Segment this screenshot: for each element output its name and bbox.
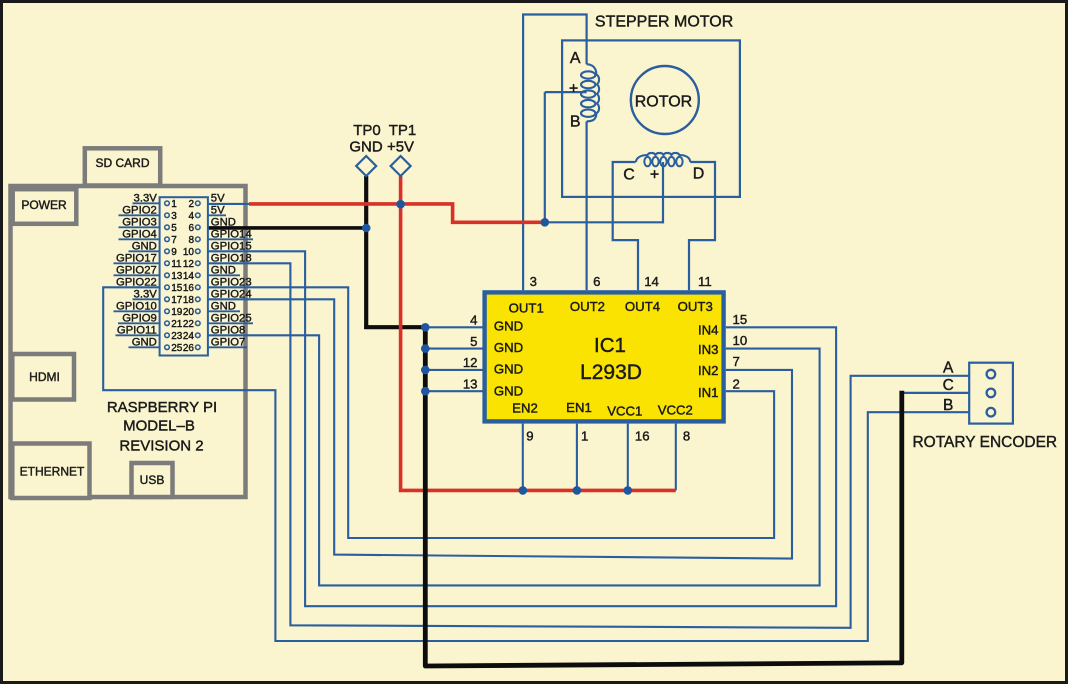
svg-text:MODEL–B: MODEL–B	[123, 417, 195, 434]
svg-text:OUT2: OUT2	[570, 299, 605, 314]
svg-text:B: B	[943, 397, 953, 414]
svg-text:17: 17	[171, 295, 183, 306]
svg-text:12: 12	[463, 355, 478, 370]
svg-text:11: 11	[698, 274, 712, 289]
svg-text:24: 24	[183, 331, 195, 342]
svg-text:GPIO10: GPIO10	[116, 300, 157, 312]
svg-text:USB: USB	[140, 473, 165, 487]
svg-text:7: 7	[171, 235, 177, 246]
svg-text:GPIO24: GPIO24	[211, 288, 252, 300]
svg-text:TP0: TP0	[353, 122, 381, 139]
svg-text:GPIO8: GPIO8	[211, 324, 246, 336]
svg-text:GPIO2: GPIO2	[122, 204, 157, 216]
svg-text:16: 16	[183, 283, 195, 294]
svg-text:GND: GND	[211, 264, 236, 276]
svg-text:POWER: POWER	[21, 198, 67, 212]
svg-text:L293D: L293D	[580, 361, 642, 384]
svg-text:GPIO18: GPIO18	[211, 252, 252, 264]
svg-text:GPIO25: GPIO25	[211, 312, 252, 324]
svg-text:10: 10	[183, 247, 195, 258]
svg-text:STEPPER MOTOR: STEPPER MOTOR	[595, 13, 733, 30]
svg-text:15: 15	[733, 312, 748, 327]
svg-text:21: 21	[171, 319, 183, 330]
svg-text:OUT3: OUT3	[678, 299, 713, 314]
svg-text:D: D	[693, 166, 705, 183]
svg-text:A: A	[943, 360, 954, 377]
svg-text:9: 9	[526, 429, 533, 444]
svg-text:14: 14	[183, 271, 195, 282]
svg-text:+5V: +5V	[387, 139, 414, 156]
svg-text:13: 13	[463, 377, 478, 392]
svg-text:VCC2: VCC2	[658, 403, 693, 418]
svg-text:GPIO7: GPIO7	[211, 336, 246, 348]
svg-text:GPIO3: GPIO3	[122, 216, 157, 228]
svg-text:A: A	[570, 50, 581, 67]
svg-text:8: 8	[188, 235, 194, 246]
svg-text:12: 12	[183, 259, 195, 270]
svg-text:+: +	[650, 167, 659, 184]
svg-text:4: 4	[188, 211, 194, 222]
svg-text:IC1: IC1	[594, 334, 626, 357]
svg-text:ETHERNET: ETHERNET	[20, 465, 85, 479]
svg-text:C: C	[623, 167, 635, 184]
svg-text:23: 23	[171, 331, 183, 342]
svg-text:SD CARD: SD CARD	[95, 156, 149, 170]
svg-text:22: 22	[183, 319, 195, 330]
svg-text:7: 7	[733, 354, 740, 369]
svg-text:GND: GND	[211, 300, 236, 312]
svg-text:C: C	[943, 377, 954, 394]
svg-text:RASPBERRY PI: RASPBERRY PI	[107, 399, 217, 416]
svg-text:TP1: TP1	[389, 122, 417, 139]
svg-text:26: 26	[183, 343, 195, 354]
svg-text:EN1: EN1	[566, 400, 592, 415]
svg-text:OUT1: OUT1	[509, 301, 544, 316]
svg-text:25: 25	[171, 343, 183, 354]
svg-text:GPIO14: GPIO14	[211, 228, 252, 240]
svg-text:11: 11	[171, 259, 182, 270]
svg-text:HDMI: HDMI	[29, 370, 60, 384]
svg-text:GPIO4: GPIO4	[122, 228, 157, 240]
svg-text:GPIO17: GPIO17	[116, 252, 157, 264]
svg-text:GPIO15: GPIO15	[211, 240, 252, 252]
svg-text:5: 5	[171, 223, 177, 234]
svg-text:10: 10	[733, 333, 748, 348]
svg-text:19: 19	[171, 307, 183, 318]
svg-text:13: 13	[171, 271, 183, 282]
svg-text:18: 18	[183, 295, 195, 306]
svg-text:GPIO27: GPIO27	[116, 264, 157, 276]
svg-text:4: 4	[470, 313, 477, 328]
svg-text:GPIO23: GPIO23	[211, 276, 252, 288]
svg-text:EN2: EN2	[512, 401, 538, 416]
svg-text:1: 1	[581, 429, 588, 444]
svg-text:GND: GND	[211, 216, 236, 228]
svg-text:5V: 5V	[211, 204, 225, 216]
svg-text:IN4: IN4	[698, 323, 719, 338]
svg-text:IN3: IN3	[698, 342, 719, 357]
svg-text:GND: GND	[494, 384, 523, 399]
svg-text:GPIO22: GPIO22	[116, 276, 157, 288]
svg-text:B: B	[570, 114, 581, 131]
svg-text:+: +	[569, 81, 578, 98]
svg-text:9: 9	[171, 247, 177, 258]
svg-text:5: 5	[470, 334, 477, 349]
svg-text:8: 8	[683, 429, 690, 444]
svg-text:OUT4: OUT4	[625, 299, 660, 314]
svg-text:GND: GND	[132, 240, 157, 252]
svg-text:5V: 5V	[211, 192, 225, 204]
svg-text:6: 6	[188, 223, 194, 234]
svg-text:GND: GND	[132, 336, 157, 348]
svg-text:2: 2	[733, 377, 740, 392]
svg-text:16: 16	[635, 429, 650, 444]
svg-text:1: 1	[171, 199, 177, 210]
svg-text:3.3V: 3.3V	[134, 192, 158, 204]
svg-text:3: 3	[530, 274, 537, 289]
svg-text:GND: GND	[494, 362, 523, 377]
svg-text:20: 20	[183, 307, 195, 318]
svg-text:VCC1: VCC1	[607, 404, 642, 419]
svg-text:15: 15	[171, 283, 183, 294]
svg-text:2: 2	[188, 199, 194, 210]
svg-text:GND: GND	[494, 340, 523, 355]
svg-text:REVISION 2: REVISION 2	[119, 438, 203, 455]
svg-text:6: 6	[593, 274, 600, 289]
svg-text:IN1: IN1	[698, 385, 719, 400]
svg-text:GPIO11: GPIO11	[117, 324, 157, 336]
svg-text:3: 3	[171, 211, 177, 222]
svg-text:GPIO9: GPIO9	[122, 312, 157, 324]
svg-text:3.3V: 3.3V	[134, 288, 158, 300]
svg-text:ROTARY ENCODER: ROTARY ENCODER	[912, 434, 1057, 451]
svg-text:GND: GND	[349, 139, 383, 156]
svg-text:ROTOR: ROTOR	[635, 94, 692, 111]
svg-text:GND: GND	[494, 319, 523, 334]
svg-text:14: 14	[644, 274, 659, 289]
svg-text:IN2: IN2	[698, 363, 719, 378]
